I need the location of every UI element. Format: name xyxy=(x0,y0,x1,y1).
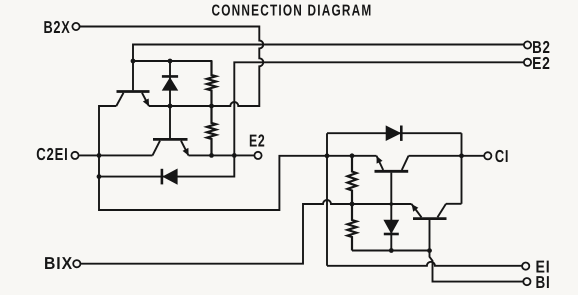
resistor R3 xyxy=(348,156,357,204)
junction D4 cathode at bottom wire xyxy=(389,248,394,253)
wire B2X lead to Q1 emitter node xyxy=(80,27,264,107)
transistor Q1 base bar xyxy=(117,90,150,93)
transistor Q1 emitter arrow xyxy=(143,99,148,106)
wire Q2 emitter to E2 terminal xyxy=(189,154,255,156)
transistor Q4 emitter arrow xyxy=(412,205,418,212)
transistor Q1 emitter lead xyxy=(142,93,149,106)
terminal B1X circle xyxy=(73,260,80,267)
junction Q3 base at Q4 emitter wire xyxy=(390,202,394,206)
svg-text:BIX: BIX xyxy=(44,253,73,273)
diode D1 cathode bar xyxy=(162,75,178,78)
junction C1 node xyxy=(459,153,464,158)
svg-text:CI: CI xyxy=(495,146,509,166)
junction R3-R4 midpoint at Q4 emitter wire xyxy=(350,202,355,207)
transistor Q3 emitter arrow xyxy=(377,157,382,164)
junction E2 vertical at emitter wire xyxy=(232,153,237,158)
diode D2 cathode bar xyxy=(161,169,164,185)
diode D3 body xyxy=(386,126,401,141)
junction Q4 base at bottom wire xyxy=(427,248,432,253)
junction Q1 base and rail xyxy=(131,59,136,64)
junction R1-R2 midpoint at node xyxy=(209,104,214,109)
transistor Q2 collector lead xyxy=(153,141,161,156)
transistor Q4 emitter lead xyxy=(412,204,422,217)
transistor Q4 collector lead xyxy=(438,204,447,218)
terminal C2E1 circle xyxy=(71,152,78,159)
junction C2E1 wire and collector vertical xyxy=(97,153,102,158)
wire R4 D4 Q4-base to B1 terminal xyxy=(352,251,524,282)
resistor R4 xyxy=(348,204,357,251)
svg-text:B2X: B2X xyxy=(44,17,71,37)
diode D4 cathode bar xyxy=(384,233,399,236)
terminal B1 circle xyxy=(523,278,530,285)
transistor Q2 base bar xyxy=(153,138,188,141)
junction Q1 emitter, Q2 base, D1 anode xyxy=(168,104,173,109)
wire C1 vertical xyxy=(461,133,463,204)
terminal B2 circle xyxy=(524,41,531,48)
wire B2 rail and Q1 base xyxy=(133,45,524,91)
wire C2E1 collector vertical and link to right module emitter xyxy=(99,106,377,210)
diode D3 cathode bar xyxy=(400,126,403,141)
wire D1 and Q2 base vertical xyxy=(169,61,171,138)
svg-text:EI: EI xyxy=(536,257,551,277)
wire Q3 base vertical through D4 xyxy=(390,173,392,251)
junction R2 bottom at E2 wire xyxy=(209,153,214,158)
wire E2 terminal via vertical to freewheel diode wire xyxy=(99,62,524,176)
terminal E2 right circle xyxy=(524,59,531,66)
terminal E2 mid circle xyxy=(254,152,261,159)
wire Q4 collector to C1 vertical xyxy=(446,203,462,205)
wire Q4 base vertical xyxy=(429,220,431,251)
svg-text:E2: E2 xyxy=(249,130,266,150)
diode D2 body xyxy=(163,169,177,184)
wire E1 node to E1 terminal xyxy=(327,262,522,266)
transistor Q2 emitter arrow xyxy=(183,148,188,155)
wire B1X lead via vertical to Q4 emitter wire xyxy=(81,200,412,264)
wire Q1 base rail xyxy=(133,60,212,62)
wire Q3 collector to C1 node xyxy=(409,155,462,157)
transistor Q3 collector lead xyxy=(402,156,409,170)
transistor Q3 emitter lead xyxy=(377,156,384,170)
wire C2E1 lead xyxy=(78,154,152,156)
svg-text:E2: E2 xyxy=(532,53,551,73)
resistor R2 xyxy=(207,106,216,155)
wire E1 node vertical left xyxy=(326,133,328,266)
terminal B2X circle xyxy=(72,23,79,30)
transistor Q1 collector lead xyxy=(116,93,123,106)
transistor Q3 base bar xyxy=(375,170,409,173)
junction D2 cathode wire at collector vertical xyxy=(97,174,102,179)
junction D1 cathode and rail xyxy=(168,59,173,64)
transistor Q2 emitter lead xyxy=(181,141,189,156)
svg-text:C2EI: C2EI xyxy=(36,144,68,164)
junction R3 top at emitter wire xyxy=(350,153,355,158)
resistor R1 xyxy=(207,61,216,106)
terminal E1 circle xyxy=(522,263,529,270)
terminal C1 circle xyxy=(484,152,491,159)
diode D4 body xyxy=(384,220,399,233)
svg-text:CONNECTION DIAGRAM: CONNECTION DIAGRAM xyxy=(212,2,373,19)
wire C1 lead xyxy=(462,155,485,157)
transistor Q4 base bar xyxy=(413,217,447,220)
junction E1 vertical at emitter wire xyxy=(325,153,330,158)
diode D1 body xyxy=(162,78,177,91)
wire D3 freewheel diode rail xyxy=(327,132,462,134)
